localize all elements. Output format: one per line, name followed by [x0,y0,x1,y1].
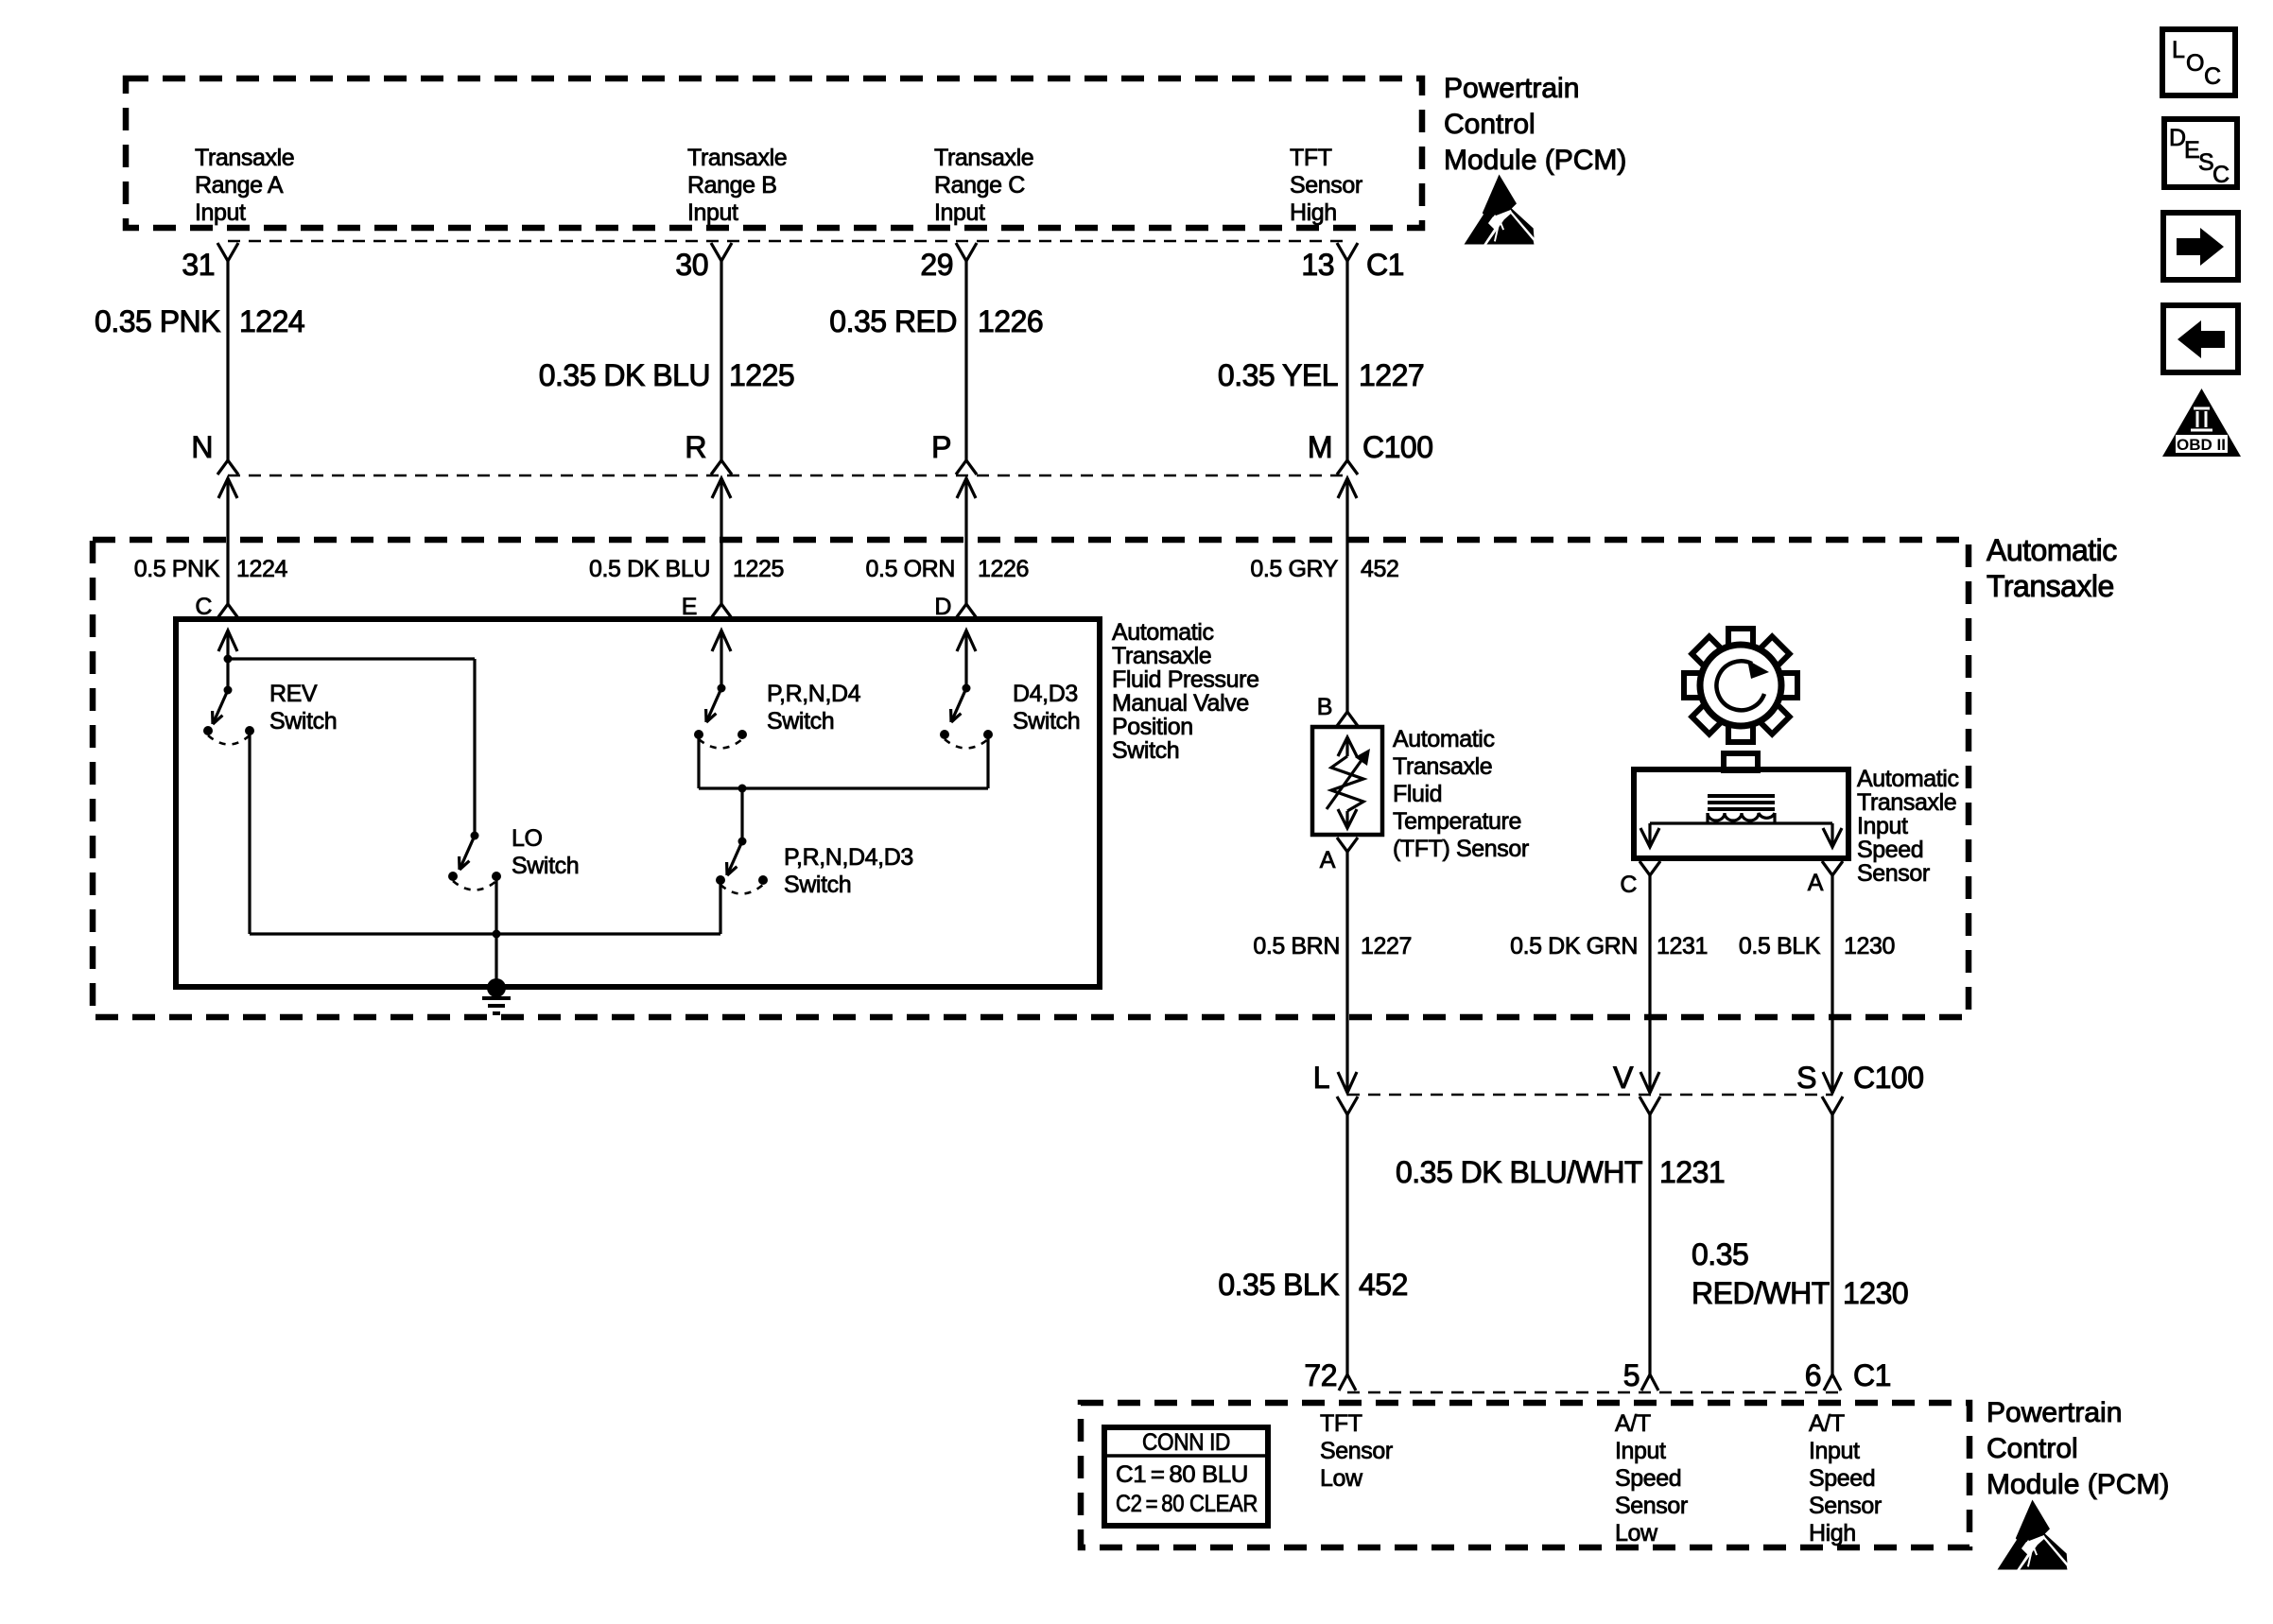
ground symbol [482,988,511,1013]
LO switch arm [460,836,475,870]
svg-text:31: 31 [182,248,215,282]
terminal P female half [956,460,977,475]
wire D4,D3 contact down [986,734,989,788]
svg-text:D4,D3Switch: D4,D3Switch [1013,681,1080,734]
terminal S arrow down [1823,1072,1842,1093]
D4,D3 switch pivot [963,684,971,693]
Automatic Transaxle Fluid Pressure Manual Valve Position Switch box [176,619,1100,987]
svg-text:B: B [1317,694,1332,720]
svg-text:0.5 DK GRN: 0.5 DK GRN [1510,933,1638,959]
terminal N arrow [218,478,237,498]
svg-text:0.5 BRN: 0.5 BRN [1253,933,1340,959]
P,R,N,D4,D3 dashed throw arc [720,885,763,894]
wire C branch to LO switch [228,657,475,660]
connector C100 dashed line (upper) [228,475,1347,477]
D4,D3 dashed throw arc [945,739,988,749]
socket above switch box [217,604,238,618]
svg-text:6: 6 [1805,1358,1821,1392]
CONN ID table [1104,1427,1268,1526]
internal arrow up [957,631,976,651]
terminal L arrow down [1338,1072,1357,1093]
terminal P arrow [957,478,976,498]
svg-text:CONN ID: CONN ID [1142,1429,1230,1456]
P,R,N,D4 switch arm [706,688,721,722]
svg-text:TransaxleRange CInput: TransaxleRange CInput [934,145,1033,226]
speed sensor coil [1708,813,1775,821]
wire into transaxle (position switch) [226,478,229,605]
svg-text:0.35 DK BLU: 0.35 DK BLU [539,358,710,392]
svg-text:A/TInputSpeedSensorHigh: A/TInputSpeedSensorHigh [1809,1410,1882,1546]
svg-text:0.5 DK BLU: 0.5 DK BLU [589,556,710,582]
svg-text:C1: C1 [1853,1358,1891,1392]
svg-text:0.5 GRY: 0.5 GRY [1250,556,1338,582]
terminal R female half [711,460,732,475]
pin 5 fork terminal [1641,1374,1658,1391]
OBD II symbol [2162,389,2241,457]
pin 6 fork terminal [1824,1374,1841,1391]
pin 13 C1 socket [1337,243,1358,261]
wire 1231 C100 to PCM pin 5 [1648,1114,1651,1374]
wire down to LO switch [473,659,476,836]
wire link bus [699,786,988,789]
junction node link bus [738,785,747,793]
D4,D3 right contact [983,730,993,739]
PCM bottom dashed box [1081,1403,1969,1547]
wire down to PRND4D3 pivot [740,788,743,841]
TFT thermistor symbol [1327,737,1364,828]
REV switch pivot [224,686,233,695]
Automatic Transaxle Fluid Temperature (TFT) Sensor box [1312,727,1382,835]
svg-text:1226: 1226 [978,304,1043,338]
svg-text:0.35 BLK: 0.35 BLK [1218,1268,1339,1302]
svg-text:P: P [931,430,951,464]
svg-text:C1 = 80 BLU: C1 = 80 BLU [1116,1461,1248,1488]
svg-text:0.5 ORN: 0.5 ORN [866,556,955,582]
svg-text:1231: 1231 [1659,1155,1725,1189]
svg-text:452: 452 [1361,556,1399,582]
svg-text:V: V [1613,1061,1634,1095]
svg-text:0.5 PNK: 0.5 PNK [134,556,220,582]
wire up to PRND4D3 contact [719,880,721,934]
terminal N female half [217,460,238,475]
svg-text:72: 72 [1304,1358,1337,1392]
svg-text:13: 13 [1301,248,1334,282]
svg-text:AutomaticTransaxle: AutomaticTransaxle [1987,533,2117,603]
svg-text:N: N [191,430,213,464]
svg-text:TransaxleRange BInput: TransaxleRange BInput [687,145,787,226]
svg-text:A: A [1320,847,1336,873]
wire 452 C100 to PCM pin 72 [1345,1114,1348,1374]
svg-text:0.35: 0.35 [1692,1237,1748,1271]
svg-text:AutomaticTransaxleFluid Pressu: AutomaticTransaxleFluid PressureManual V… [1112,619,1259,764]
wire circuit 1225 (PCM to C100) [720,260,722,462]
LOC hotlink icon [2162,29,2235,95]
svg-text:1230: 1230 [1844,933,1895,959]
svg-text:29: 29 [920,248,953,282]
svg-text:D: D [2169,125,2186,151]
svg-text:0.35 YEL: 0.35 YEL [1218,358,1338,392]
svg-text:C100: C100 [1362,430,1433,464]
svg-text:PowertrainControlModule (PCM): PowertrainControlModule (PCM) [1987,1397,2169,1500]
Automatic Transaxle Input Speed Sensor box [1634,769,1848,858]
wire circuit 1224 (PCM to C100) [226,260,229,462]
pin 31 C1 socket [217,243,238,261]
terminal L female half (lower) [1337,1097,1358,1114]
svg-text:E: E [682,594,697,620]
terminal R arrow [712,478,731,498]
wire LO contact to ground [495,876,497,987]
svg-text:A/TInputSpeedSensorLow: A/TInputSpeedSensorLow [1615,1410,1688,1546]
wire PRND4 contact down [697,734,700,788]
ground connection node [487,978,506,997]
svg-text:1225: 1225 [729,358,794,392]
Automatic Transaxle dashed box [93,540,1969,1017]
svg-text:30: 30 [675,248,708,282]
input speed sensor gear (reluctor) [1684,629,1797,742]
svg-text:L: L [1313,1061,1329,1095]
D4,D3 left contact [940,730,949,739]
svg-text:1224: 1224 [239,304,304,338]
svg-text:C1: C1 [1366,248,1404,282]
internal wire pin C [226,631,229,690]
REV switch left contact [203,726,213,735]
pin A speed sensor Y socket [1822,861,1843,875]
speed sensor core lines [1708,796,1775,809]
svg-text:1227: 1227 [1361,933,1412,959]
svg-text:P,R,N,D4Switch: P,R,N,D4Switch [767,681,861,734]
connector C1 dashed line (bottom) [1347,1391,1839,1394]
pin 29 C1 socket [956,243,977,261]
internal arrow up [218,631,237,651]
svg-text:C: C [2204,63,2221,90]
svg-text:O: O [2186,50,2204,77]
P,R,N,D4,D3 switch arm [727,841,742,875]
LO switch dashed throw arc [453,881,496,890]
junction node ground bus [493,930,501,939]
wire circuit 1227 (PCM to C100) [1345,260,1348,462]
LO switch right contact [492,872,501,881]
svg-text:C: C [2212,162,2230,188]
wire circuit 1226 (PCM to C100) [964,260,967,462]
svg-text:TFTSensorLow: TFTSensorLow [1320,1410,1393,1492]
internal arrow up [712,631,731,651]
svg-text:S: S [1796,1061,1816,1095]
internal wire pin D [964,631,967,688]
svg-text:C100: C100 [1853,1061,1924,1095]
svg-text:1224: 1224 [236,556,288,582]
terminal V female half (lower) [1640,1097,1660,1114]
svg-text:P,R,N,D4,D3Switch: P,R,N,D4,D3Switch [784,844,913,898]
P,R,N,D4,D3 left contact [716,875,725,885]
svg-text:0.35 DK BLU/WHT: 0.35 DK BLU/WHT [1396,1155,1642,1189]
D4,D3 switch arm [951,688,966,722]
DESC hotlink icon [2164,119,2237,188]
svg-text:5: 5 [1623,1358,1640,1392]
svg-text:0.35 PNK: 0.35 PNK [95,304,220,338]
svg-text:1225: 1225 [733,556,784,582]
svg-text:REVSwitch: REVSwitch [269,681,337,734]
wire 1227 TFT A to C100 [1345,851,1348,1093]
svg-text:OBD II: OBD II [2177,436,2226,454]
svg-text:S: S [2198,149,2213,176]
terminal S female half (lower) [1822,1097,1843,1114]
socket above switch box [956,604,977,618]
REV switch arm [213,690,228,724]
svg-text:LOSwitch: LOSwitch [512,825,579,879]
wire into transaxle (position switch) [964,478,967,605]
svg-text:PowertrainControlModule (PCM): PowertrainControlModule (PCM) [1444,73,1626,176]
connector C1 dashed line (top) [228,240,1347,243]
svg-text:RED/WHT: RED/WHT [1692,1276,1830,1310]
terminal M arrow [1338,478,1357,498]
socket above TFT sensor [1337,712,1358,726]
pin 72 fork terminal [1339,1374,1356,1391]
svg-text:M: M [1308,430,1332,464]
wire 1230 speed sensor A to C100 [1831,874,1833,1093]
REV switch right contact [245,726,254,735]
wire REV contact down [248,731,251,934]
REV switch dashed throw arc [208,735,250,745]
left arrow hotlink icon [2163,305,2238,372]
svg-text:0.35 RED: 0.35 RED [829,304,957,338]
internal wire pin E [720,631,722,688]
ESD sensitive device symbol (top PCM) [1465,175,1535,245]
svg-text:R: R [685,430,706,464]
svg-text:0.5 BLK: 0.5 BLK [1739,933,1821,959]
svg-text:TransaxleRange AInput: TransaxleRange AInput [195,145,294,226]
PCM top dashed box [126,78,1422,228]
svg-text:E: E [2184,137,2199,164]
right arrow hotlink icon [2163,213,2238,280]
pin A TFT Y socket [1337,838,1358,852]
svg-text:AutomaticTransaxleInputSpeedSe: AutomaticTransaxleInputSpeedSensor [1857,766,1959,887]
LO switch left contact [448,872,458,881]
svg-text:1231: 1231 [1657,933,1708,959]
terminal M female half [1337,460,1358,475]
svg-text:1226: 1226 [978,556,1029,582]
P,R,N,D4 right contact [737,730,747,739]
LO switch pivot [471,832,479,840]
pin C speed sensor Y socket [1640,861,1660,875]
P,R,N,D4,D3 switch pivot [738,838,747,846]
svg-text:452: 452 [1359,1268,1408,1302]
wire into transaxle (position switch) [720,478,722,605]
svg-text:D: D [934,594,951,620]
wire 452 into transaxle (TFT sensor) [1345,478,1348,712]
P,R,N,D4 switch pivot [718,684,726,693]
svg-text:TFTSensorHigh: TFTSensorHigh [1290,145,1362,226]
svg-text:1230: 1230 [1843,1276,1908,1310]
P,R,N,D4 dashed throw arc [699,739,742,749]
P,R,N,D4 left contact [694,730,703,739]
junction node pin C branch [224,655,233,664]
svg-text:1227: 1227 [1359,358,1424,392]
wire 1230 C100 to PCM pin 6 [1831,1114,1833,1374]
pin 30 C1 socket [711,243,732,261]
svg-text:C: C [195,594,212,620]
ESD sensitive device symbol (bottom PCM) [1998,1500,2068,1570]
svg-text:C: C [1620,872,1637,898]
wire lower bus [250,932,720,935]
speed sensor mounting tab [1724,753,1758,770]
P,R,N,D4,D3 right contact [758,875,768,885]
socket above switch box [711,604,732,618]
connector C100 dashed line (lower) [1347,1094,1832,1097]
wire 1231 speed sensor C to C100 [1648,874,1651,1093]
speed sensor internal wiring [1640,813,1842,847]
svg-text:C2 = 80 CLEAR: C2 = 80 CLEAR [1116,1491,1258,1517]
svg-text:L: L [2172,37,2185,63]
svg-text:A: A [1808,870,1824,896]
terminal V arrow down [1640,1072,1659,1093]
svg-text:AutomaticTransaxleFluidTempera: AutomaticTransaxleFluidTemperature(TFT) … [1393,726,1529,862]
